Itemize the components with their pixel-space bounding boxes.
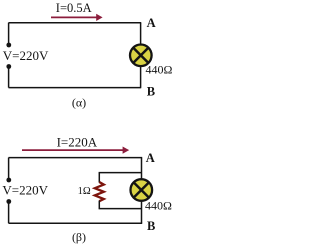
current arrow I (beta) [22,147,129,154]
battery terminal dot top (alpha) [6,43,11,48]
wire: left upper (beta) [8,158,10,179]
wire: left lower (beta) [8,203,10,224]
wire: top side (alpha) [9,22,142,24]
lamp 440Ω (alpha) [130,45,152,67]
battery terminal dot bottom (beta) [6,199,11,204]
current arrow I (alpha) [51,14,103,21]
wire: top side (beta) [9,157,143,159]
svg-text:V=220V: V=220V [2,183,48,198]
wire: parallel branch bottom (beta) [99,208,142,210]
resistor 1Ω (beta) [95,182,104,201]
wire: right side (beta) [141,158,143,224]
svg-text:440Ω: 440Ω [146,62,173,76]
wire: branch left leg upper (beta) [98,173,100,183]
svg-text:440Ω: 440Ω [145,199,172,213]
battery terminal dot top (beta) [6,178,11,183]
svg-text:A: A [147,16,156,30]
svg-text:I=0.5A: I=0.5A [56,1,92,15]
wire: parallel branch top (beta) [99,172,142,174]
wire: bottom side (alpha) [9,87,142,89]
svg-text:(α): (α) [72,95,86,109]
svg-text:A: A [146,151,155,165]
wire: bottom side (beta) [9,222,143,224]
svg-text:I=220A: I=220A [57,135,98,150]
svg-text:B: B [147,85,155,99]
wire: branch left leg lower (beta) [98,201,100,209]
battery terminal dot bottom (alpha) [6,64,11,69]
svg-text:B: B [147,219,155,233]
wire: left upper (alpha) [8,23,10,44]
lamp 440Ω (beta) [131,179,153,201]
svg-text:1Ω: 1Ω [78,186,91,197]
svg-text:(β): (β) [72,230,86,244]
svg-text:V=220V: V=220V [3,48,49,63]
wire: right side (alpha) [140,23,142,88]
wire: left lower (alpha) [8,68,10,88]
